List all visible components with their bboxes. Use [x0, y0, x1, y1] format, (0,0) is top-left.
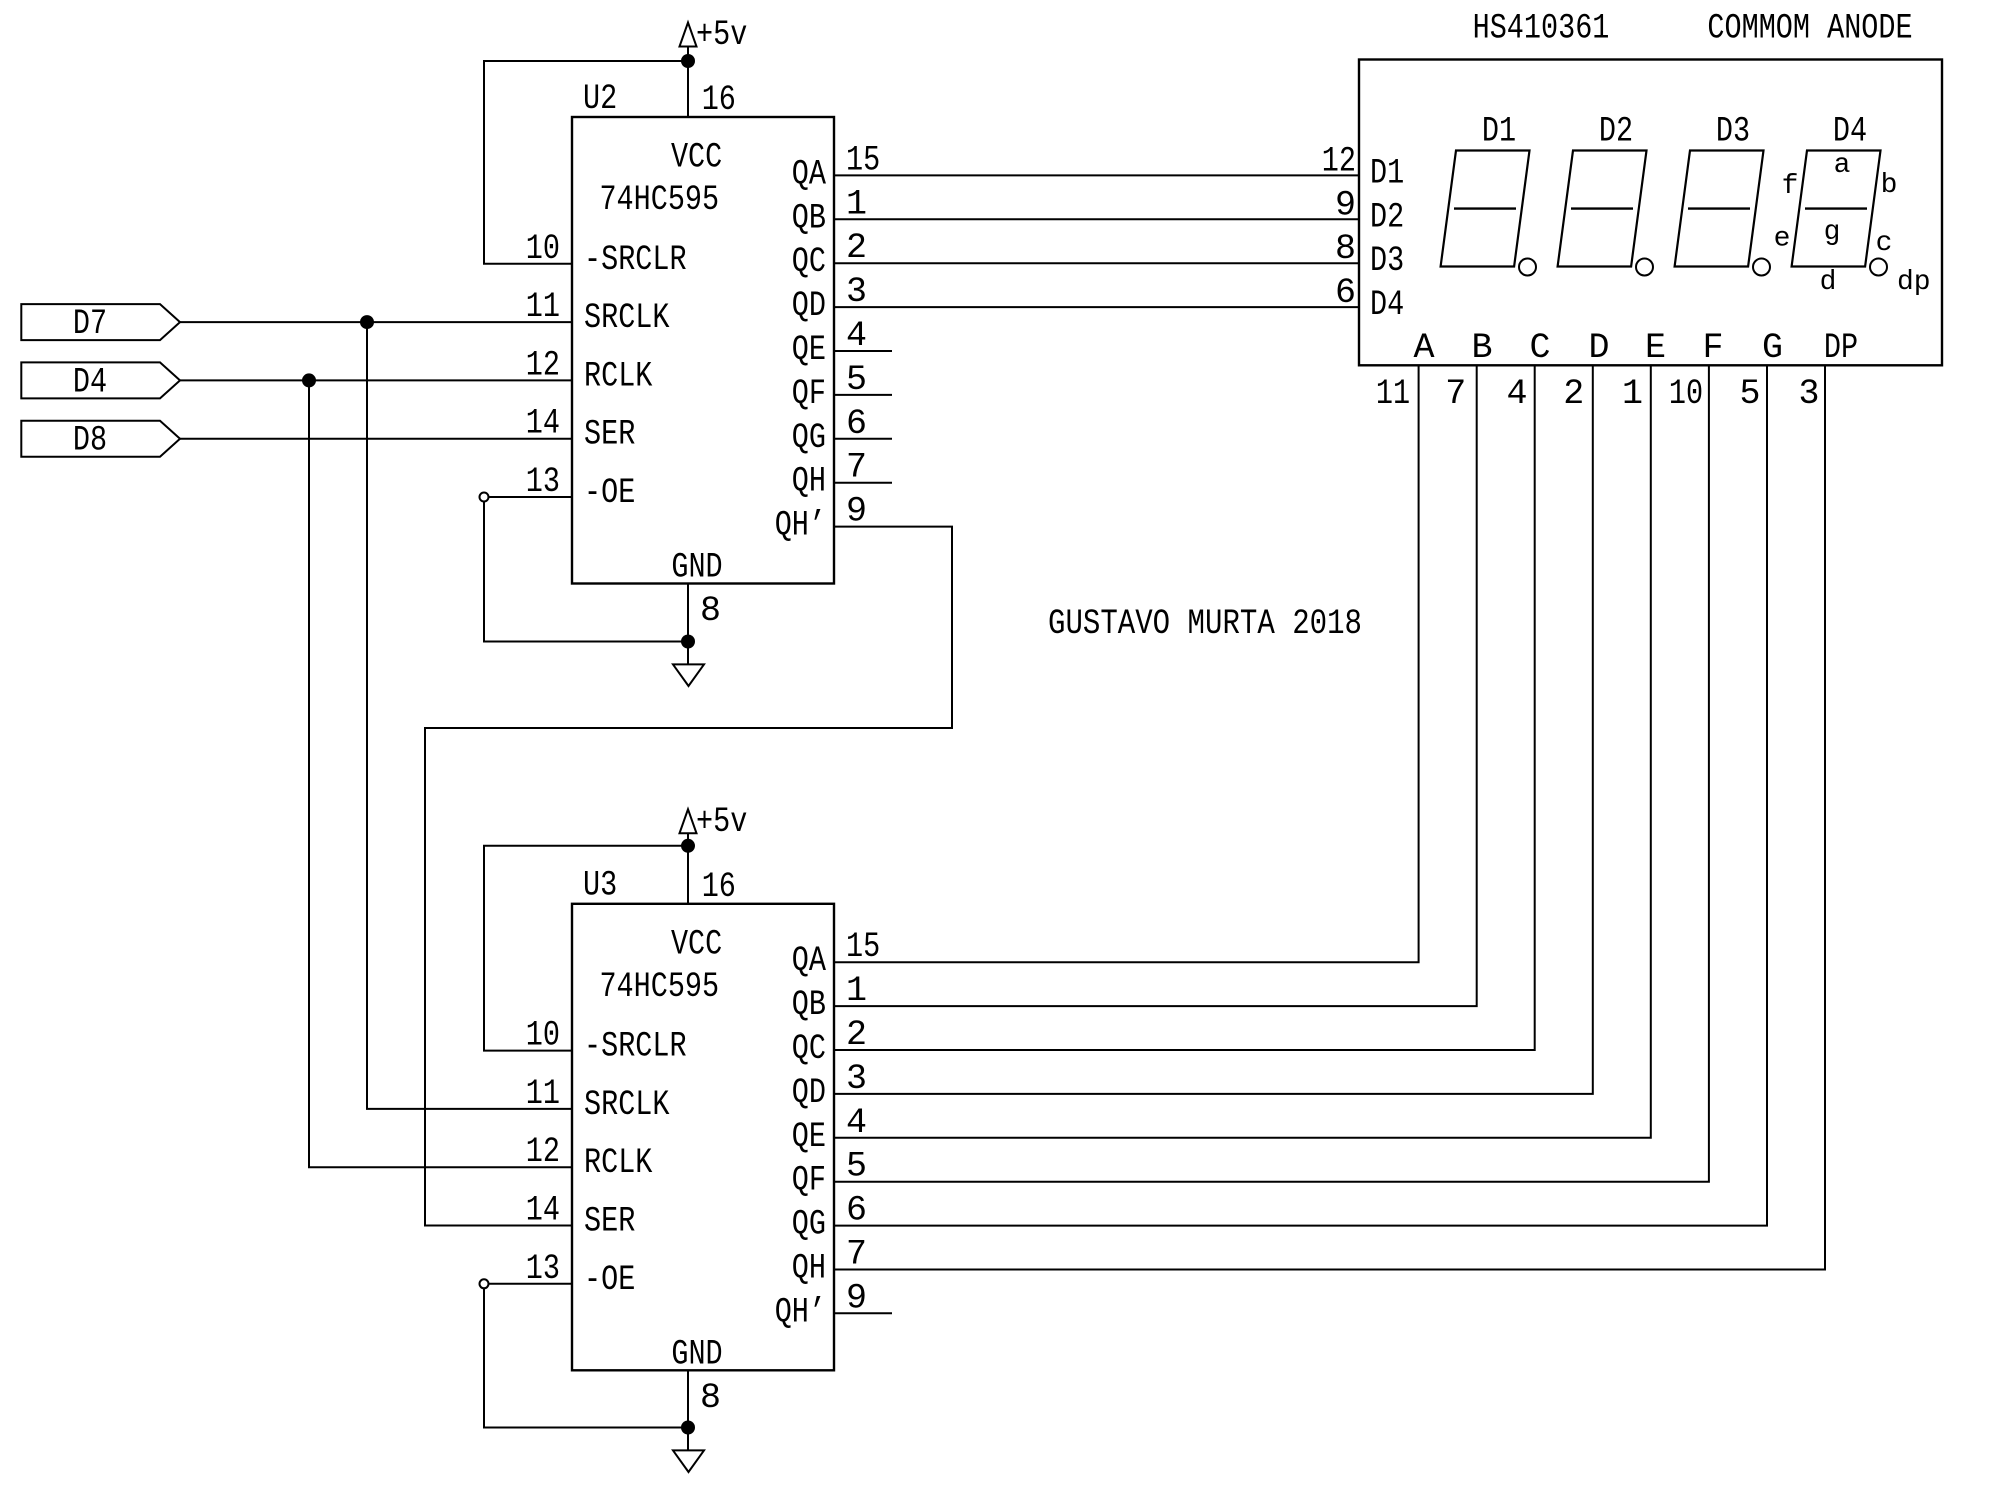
svg-text:D: D — [1588, 328, 1609, 368]
wire +5v to U2 -SRCLR pin 10 — [484, 61, 688, 264]
svg-text:QF: QF — [792, 1161, 826, 1201]
svg-text:QC: QC — [792, 242, 826, 282]
svg-text:QG: QG — [792, 418, 826, 458]
seven-segment digit D3 — [1675, 112, 1770, 276]
U3 left pin 14 SER — [526, 1191, 636, 1242]
svg-text:16: 16 — [702, 80, 736, 120]
svg-text:QD: QD — [792, 1073, 826, 1113]
wire U2 GND pin 8 down — [687, 584, 689, 642]
svg-text:-OE: -OE — [584, 1260, 635, 1300]
svg-text:QB: QB — [792, 985, 826, 1025]
svg-text:6: 6 — [1335, 273, 1356, 313]
U2 right pin 5 QF — [792, 360, 867, 414]
svg-text:DP: DP — [1824, 328, 1858, 368]
svg-text:G: G — [1762, 328, 1783, 368]
svg-text:QH: QH — [792, 462, 826, 502]
svg-text:12: 12 — [1322, 141, 1356, 181]
U2 right pin 3 QD — [792, 272, 867, 326]
wire D8 to U2 SER — [180, 438, 572, 440]
wire U2 QB to display D2 — [834, 218, 1359, 220]
svg-text:GND: GND — [671, 548, 722, 588]
power +5v symbol U3 — [680, 802, 748, 846]
svg-text:VCC: VCC — [671, 138, 722, 178]
svg-text:SER: SER — [584, 415, 635, 455]
wire U2 QC to display D3 — [834, 262, 1359, 264]
U2 left pin 11 SRCLK — [526, 287, 670, 338]
svg-text:HS410361: HS410361 — [1473, 9, 1610, 49]
svg-text:SRCLK: SRCLK — [584, 1085, 670, 1125]
U3 right pin 7 QH — [792, 1235, 867, 1289]
svg-text:f: f — [1782, 171, 1799, 202]
U3 right pin 9 QH’ — [775, 1278, 867, 1332]
U3 right pin 5 QF — [792, 1147, 867, 1201]
svg-text:14: 14 — [526, 1191, 560, 1231]
U3 right pin 1 QB — [792, 971, 867, 1025]
svg-text:11: 11 — [1376, 374, 1410, 414]
wire U2 QA to display D1 — [834, 174, 1359, 176]
svg-text:COMMOM ANODE: COMMOM ANODE — [1707, 9, 1912, 49]
wire U3 QB to display segment B — [834, 365, 1477, 1006]
wire U3 -OE to ground — [484, 1288, 688, 1427]
U2 right pin 6 QG — [792, 404, 867, 458]
display pin 8 D3 — [1335, 229, 1404, 281]
junction D7 branch — [360, 315, 374, 329]
wire U3 QH to display segment DP — [834, 365, 1825, 1269]
svg-text:D4: D4 — [1833, 112, 1867, 152]
svg-text:SRCLK: SRCLK — [584, 298, 670, 338]
connector D4 — [21, 362, 180, 402]
U2 right pin 2 QC — [792, 228, 867, 282]
U3 right pin 2 QC — [792, 1015, 867, 1069]
wire U3 QC to display segment C — [834, 365, 1535, 1050]
U2 right pin 9 QH’ — [775, 492, 867, 546]
display segment pin letters A-DP — [1413, 328, 1858, 368]
connector D8 — [21, 421, 180, 461]
display pin 9 D2 — [1335, 185, 1404, 237]
svg-text:11: 11 — [526, 1074, 560, 1114]
display HS410361 body — [1359, 60, 1942, 366]
svg-text:d: d — [1820, 267, 1837, 298]
svg-text:D8: D8 — [73, 421, 107, 461]
U3 right pin 4 QE — [792, 1103, 867, 1157]
wire U2 QH' to U3 SER (daisy chain) — [425, 527, 952, 1226]
junction U2 ground — [681, 635, 695, 649]
display pin 6 D4 — [1335, 273, 1404, 325]
svg-text:2: 2 — [1563, 374, 1584, 414]
wire D4 branch down to U3 RCLK — [309, 380, 572, 1167]
svg-text:QA: QA — [792, 154, 826, 194]
U3 right pin 6 QG — [792, 1191, 867, 1245]
wire U3 GND pin 8 down — [687, 1370, 689, 1427]
svg-text:+5v: +5v — [696, 802, 747, 842]
wire U3 QE to display segment E — [834, 365, 1651, 1138]
svg-text:-OE: -OE — [584, 473, 635, 513]
seven-segment digit D1 — [1441, 112, 1536, 276]
svg-text:12: 12 — [526, 1132, 560, 1172]
wire U3 QG to display segment G — [834, 365, 1767, 1225]
wire U2 -OE to ground — [484, 502, 688, 642]
svg-text:A: A — [1413, 328, 1434, 368]
svg-text:B: B — [1471, 328, 1492, 368]
U3 -OE pin wire — [489, 1283, 573, 1285]
svg-text:8: 8 — [1335, 229, 1356, 269]
svg-text:10: 10 — [526, 229, 560, 269]
svg-text:-SRCLR: -SRCLR — [584, 1027, 687, 1067]
connector D7 — [21, 304, 180, 344]
U2 -OE pin wire — [489, 496, 573, 498]
U2 right pin 15 QA — [792, 140, 880, 194]
svg-text:GUSTAVO MURTA 2018: GUSTAVO MURTA 2018 — [1048, 604, 1362, 644]
svg-text:QB: QB — [792, 198, 826, 238]
U2 left pin 10 -SRCLR — [526, 229, 687, 280]
wire D7 branch down to U3 SRCLK — [367, 322, 572, 1109]
U2 right pin 1 QB — [792, 184, 867, 238]
U2 QG stub — [834, 438, 892, 440]
U2 pin 13 -OE open circle — [480, 493, 489, 502]
svg-text:14: 14 — [526, 404, 560, 444]
svg-text:3: 3 — [1798, 374, 1819, 414]
svg-text:RCLK: RCLK — [584, 356, 652, 396]
svg-text:E: E — [1645, 328, 1666, 368]
U2 left pin 13 -OE — [526, 462, 636, 513]
display segment pin numbers — [1376, 374, 1820, 414]
svg-text:e: e — [1774, 224, 1791, 255]
wire D4 to U2 RCLK — [180, 379, 572, 381]
svg-text:1: 1 — [1622, 374, 1643, 414]
junction +5v U2 — [681, 54, 695, 68]
wire +5v to U2 VCC pin 16 — [687, 61, 689, 117]
U3 pin 13 -OE open circle — [480, 1279, 489, 1288]
svg-text:D4: D4 — [1370, 285, 1404, 325]
svg-text:SER: SER — [584, 1202, 635, 1242]
U2 right pin 4 QE — [792, 316, 867, 370]
svg-text:QC: QC — [792, 1029, 826, 1069]
seven-segment digit D2 — [1558, 112, 1653, 276]
svg-text:c: c — [1876, 228, 1893, 259]
U2 QH stub — [834, 482, 892, 484]
svg-text:QE: QE — [792, 330, 826, 370]
wire +5v to U3 -SRCLR pin 10 — [484, 846, 688, 1051]
U2 left pin 12 RCLK — [526, 345, 653, 396]
wire U2 QD to display D4 — [834, 306, 1359, 308]
svg-text:74HC595: 74HC595 — [599, 180, 719, 220]
svg-text:-SRCLR: -SRCLR — [584, 240, 687, 280]
U3 left pin 10 -SRCLR — [526, 1016, 687, 1067]
IC U2 74HC595 body — [572, 117, 834, 584]
svg-text:12: 12 — [526, 345, 560, 385]
svg-text:QA: QA — [792, 941, 826, 981]
svg-text:RCLK: RCLK — [584, 1143, 652, 1183]
svg-text:10: 10 — [526, 1016, 560, 1056]
svg-text:7: 7 — [1445, 374, 1466, 414]
svg-text:11: 11 — [526, 287, 560, 327]
U2 left pin 14 SER — [526, 404, 636, 455]
svg-text:dp: dp — [1897, 267, 1931, 298]
U3 left pin 12 RCLK — [526, 1132, 653, 1183]
U3 right pin 3 QD — [792, 1059, 867, 1113]
display pin 12 D1 — [1322, 141, 1404, 193]
U2 QF stub — [834, 394, 892, 396]
svg-text:U3: U3 — [583, 866, 617, 906]
svg-text:a: a — [1834, 150, 1851, 181]
svg-text:9: 9 — [1335, 185, 1356, 225]
svg-text:b: b — [1881, 170, 1898, 201]
svg-text:D1: D1 — [1482, 112, 1516, 152]
ground symbol U2 — [673, 642, 704, 687]
svg-text:QH’: QH’ — [775, 506, 826, 546]
svg-text:U2: U2 — [583, 79, 617, 119]
U3 left pin 13 -OE — [526, 1249, 636, 1300]
svg-text:8: 8 — [700, 1378, 721, 1418]
ground symbol U3 — [673, 1428, 704, 1473]
seven-segment digit D4 — [1792, 112, 1887, 276]
power +5v symbol U2 — [680, 15, 748, 61]
svg-text:D2: D2 — [1599, 112, 1633, 152]
wire U3 QF to display segment F — [834, 365, 1709, 1181]
U3 left pin 11 SRCLK — [526, 1074, 670, 1125]
wire U3 QD to display segment D — [834, 365, 1593, 1094]
U2 QE stub — [834, 350, 892, 352]
svg-text:QE: QE — [792, 1117, 826, 1157]
svg-text:QH’: QH’ — [775, 1292, 826, 1332]
svg-text:10: 10 — [1669, 374, 1703, 414]
svg-text:QD: QD — [792, 286, 826, 326]
svg-text:C: C — [1529, 328, 1550, 368]
svg-text:D3: D3 — [1370, 241, 1404, 281]
U3 QH' stub — [834, 1312, 892, 1314]
junction D4 branch — [302, 373, 316, 387]
junction +5v U3 — [681, 839, 695, 853]
svg-text:8: 8 — [700, 591, 721, 631]
svg-text:74HC595: 74HC595 — [599, 967, 719, 1007]
U3 right pin 15 QA — [792, 927, 880, 981]
svg-text:D2: D2 — [1370, 197, 1404, 237]
IC U3 74HC595 body — [572, 904, 834, 1371]
svg-text:D1: D1 — [1370, 153, 1404, 193]
svg-text:D3: D3 — [1716, 112, 1750, 152]
svg-text:5: 5 — [1739, 374, 1760, 414]
svg-text:D4: D4 — [73, 362, 107, 402]
U2 right pin 7 QH — [792, 448, 867, 502]
svg-text:16: 16 — [702, 867, 736, 907]
svg-text:VCC: VCC — [671, 924, 722, 964]
svg-text:+5v: +5v — [696, 15, 747, 55]
wire D7 to U2 SRCLK — [180, 321, 572, 323]
svg-text:GND: GND — [671, 1334, 722, 1374]
svg-text:g: g — [1824, 217, 1841, 248]
junction U3 ground — [681, 1421, 695, 1435]
svg-text:4: 4 — [1506, 374, 1527, 414]
wire U3 QA to display segment A — [834, 365, 1419, 962]
svg-text:F: F — [1702, 328, 1723, 368]
wire +5v to U3 VCC pin 16 — [687, 846, 689, 904]
svg-text:QH: QH — [792, 1249, 826, 1289]
svg-text:D7: D7 — [73, 304, 107, 344]
svg-text:QG: QG — [792, 1205, 826, 1245]
svg-text:QF: QF — [792, 374, 826, 414]
